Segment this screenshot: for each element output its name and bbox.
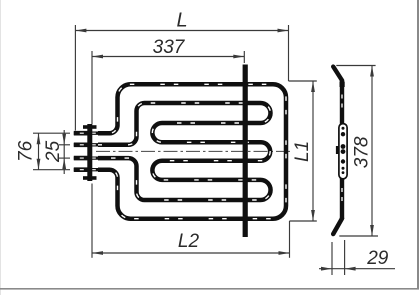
dimension 337: dim line [92,56,244,58]
dimension L: left extension line [74,25,76,131]
border frame bottom edge [0,288,419,290]
side view: white dashes on tube [341,95,343,202]
dimension 25: dim line [63,130,65,174]
terminal pin 1 [74,132,103,135]
left support bracket top cap [83,125,97,129]
side view: vertical tube body [340,80,344,219]
dimension 29: left extension line [331,242,333,275]
arrow 76 top [37,133,41,144]
centerline (dash-dot axis of element) [96,150,290,152]
dimension 337: left extension line [91,51,93,124]
border frame right edge [417,0,419,290]
dimension 29: right extension line [344,240,346,275]
svg-text:25: 25 [43,140,64,163]
terminal pin 3 [74,156,103,159]
dimension 378: top extension line [336,65,375,67]
dimension 76: dim line [38,133,40,170]
arrow L1 bottom [311,210,315,221]
terminal sleeve pin4 [74,167,90,172]
dimension L1: dim line [312,81,314,221]
arrow L2 right [279,251,290,255]
dimension L1: bottom extension line [290,220,317,222]
heating tube: outer circuit (pin1 - row A - right side - row A' - pin4) [98,84,286,218]
dimension 25: extension tick pin2 [59,144,70,146]
arrow L2 left [92,251,103,255]
arrow 25 top (outside) [62,134,66,145]
dimension 25: extension tick pin3 [59,157,70,159]
white highlight dashes on inner tube [98,103,271,200]
arrow 25 bottom (outside) [62,158,66,169]
svg-text:29: 29 [366,248,389,269]
dimension 378: bottom extension line [339,235,378,237]
svg-text:337: 337 [153,37,186,58]
terminal pin 4 [74,168,103,171]
right support bracket (edge view bar) [243,65,248,238]
arrow 378 top [370,66,374,77]
dimension L1: top extension line [289,80,317,82]
dimension 29: dim line [319,268,395,270]
side view: bottom bent terminal end [333,219,342,235]
svg-text:L2: L2 [178,231,200,252]
dimension L2: dim line [92,252,290,254]
terminal sleeve pin1 [74,131,90,136]
side view: mounting bracket plate [339,124,347,179]
svg-text:378: 378 [352,136,373,168]
svg-text:L1: L1 [292,141,313,162]
white highlight dashes on outer tube [98,84,286,218]
arrow 337 right [233,55,244,59]
arrow L right [278,29,289,33]
dimension L: dim line [75,30,288,32]
terminal pin 2 [74,143,103,146]
side view: bracket tab (left) [336,146,340,154]
terminal sleeve pin2 [74,143,90,148]
side view: rivet dots [341,127,346,174]
dimension 76/25: extension tick pin4 [33,169,70,171]
side view: terminal sleeve bulge [340,82,345,88]
svg-text:76: 76 [16,140,37,162]
dimension 337: right extension line [243,51,245,63]
arrow 29 left (outside) [321,267,332,271]
dimension 378: dim line [371,66,373,237]
arrow L1 top [311,81,315,92]
arrow 378 bottom [370,225,374,236]
left support bracket bottom cap [83,176,97,180]
svg-text:L: L [176,9,187,31]
dimension L: right extension line [288,25,290,81]
dimension L2: right extension line [289,221,291,258]
border frame left edge [0,0,1,295]
arrow 29 right (outside) [345,267,356,271]
arrow 76 bottom [37,159,41,170]
arrow 337 left [92,55,103,59]
dimension 76/25: extension tick pin1 [33,132,70,134]
terminal sleeve pin3 [74,156,90,161]
dimension L2: left extension line [91,184,93,258]
side view: top bent terminal end [333,67,342,81]
arrow L left [75,29,86,33]
heating tube: inner circuit (pin2 - row B - row C - row D - row D' - row C' - row B' - pin3) [98,103,271,200]
left support bracket (edge view bar) [87,124,92,181]
white highlight dashes on pins [74,133,103,170]
